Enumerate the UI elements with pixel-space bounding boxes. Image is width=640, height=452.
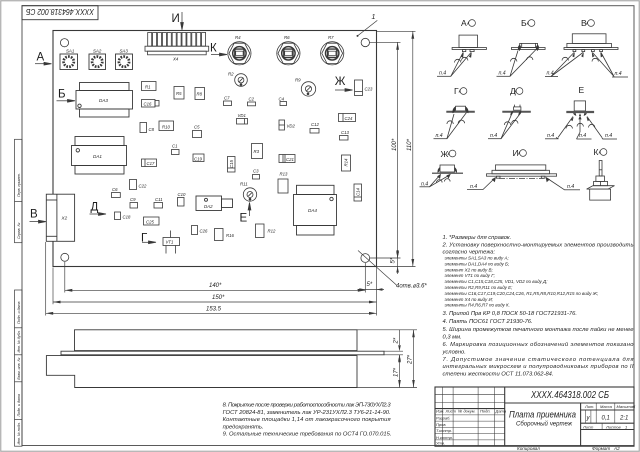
svg-text:C17: C17 [147, 161, 155, 166]
svg-text:Б: Б [58, 89, 66, 101]
svg-text:элементы R2,R9,R11 по виду Е;: элементы R2,R9,R11 по виду Е; [445, 285, 514, 290]
svg-text:А: А [461, 18, 467, 28]
svg-text:C2: C2 [249, 97, 255, 102]
svg-text:А2: А2 [613, 446, 620, 451]
svg-text:C8: C8 [149, 127, 155, 132]
svg-text:R14: R14 [344, 158, 349, 166]
svg-text:Утв.: Утв. [436, 441, 445, 446]
svg-text:Лит.: Лит. [584, 404, 594, 409]
svg-text:элементы DA1,DA4 по виду Б;: элементы DA1,DA4 по виду Б; [445, 261, 510, 266]
svg-text:Перв. примен.: Перв. примен. [17, 173, 21, 197]
svg-text:C25: C25 [146, 220, 154, 225]
svg-text:п.4: п.4 [547, 71, 554, 77]
svg-text:C7: C7 [224, 96, 230, 101]
svg-text:DA4: DA4 [308, 208, 317, 213]
svg-text:п.4: п.4 [470, 184, 477, 190]
svg-text:Е: Е [579, 85, 585, 95]
svg-text:Масштаб: Масштаб [617, 404, 636, 409]
svg-text:17*: 17* [394, 367, 400, 377]
svg-text:C15: C15 [229, 160, 234, 168]
svg-text:X2: X2 [61, 216, 68, 221]
svg-text:ГОСТ 20824-81, заменитель лак: ГОСТ 20824-81, заменитель лак УР-231УХЛ2… [223, 410, 391, 416]
svg-text:R4: R4 [235, 35, 241, 40]
svg-text:2:1: 2:1 [619, 416, 628, 422]
svg-text:Е: Е [240, 213, 248, 225]
svg-text:п.4: п.4 [579, 133, 586, 139]
svg-text:VT1: VT1 [166, 240, 174, 245]
svg-text:условно.: условно. [442, 350, 466, 356]
svg-text:Сборочный чертеж: Сборочный чертеж [516, 420, 572, 428]
svg-text:элемент VT1 по виду Г;: элемент VT1 по виду Г; [445, 273, 496, 278]
svg-text:Н.контр.: Н.контр. [436, 435, 453, 440]
svg-text:1. *Размеры для справок.: 1. *Размеры для справок. [443, 235, 512, 241]
svg-text:элементы С16,С17,С19,С20,С24,С: элементы С16,С17,С19,С20,С24,С26, R1,R5,… [445, 291, 599, 296]
svg-text:X4: X4 [172, 57, 179, 62]
svg-text:SA3: SA3 [120, 49, 129, 54]
svg-text:XXXX.464318.002 СБ: XXXX.464318.002 СБ [25, 7, 94, 16]
svg-text:элементы С1,С15,С18,С25, VD1,: элементы С1,С15,С18,С25, VD1, VD2 по вид… [445, 279, 549, 284]
svg-text:R8: R8 [197, 92, 203, 97]
svg-text:предохранять.: предохранять. [223, 424, 264, 430]
svg-text:C13: C13 [341, 130, 349, 135]
svg-text:2*: 2* [394, 337, 400, 344]
svg-text:интегральных микросхем и полуп: интегральных микросхем и полупроводников… [443, 364, 634, 370]
svg-text:C5: C5 [194, 125, 200, 130]
svg-text:К: К [594, 147, 599, 157]
svg-text:4. Паять ПОС61 ГОСТ 21930-76.: 4. Паять ПОС61 ГОСТ 21930-76. [443, 319, 533, 325]
svg-text:R16: R16 [226, 233, 234, 238]
svg-text:2. Установку поверхностно-монт: 2. Установку поверхностно-монтируемых эл… [442, 242, 634, 248]
svg-text:100*: 100* [392, 138, 398, 151]
svg-text:Т.контр.: Т.контр. [436, 428, 452, 433]
svg-text:Пров.: Пров. [436, 422, 447, 427]
svg-text:R7: R7 [328, 35, 334, 40]
svg-text:DA3: DA3 [99, 98, 108, 103]
svg-text:п.4: п.4 [547, 133, 554, 139]
svg-text:п.4: п.4 [605, 133, 612, 139]
svg-text:Копировал: Копировал [517, 446, 540, 451]
svg-text:153.5: 153.5 [206, 307, 222, 313]
svg-text:Подп.: Подп. [480, 409, 491, 414]
svg-text:8. Покрытие после проверки раб: 8. Покрытие после проверки работоспособн… [223, 403, 392, 409]
svg-text:SA1: SA1 [66, 49, 75, 54]
svg-text:C16: C16 [144, 102, 152, 107]
svg-text:150*: 150* [212, 295, 225, 301]
svg-text:Разраб.: Разраб. [436, 416, 450, 421]
svg-text:Дата: Дата [495, 409, 507, 414]
svg-text:элементы R4,R6,R7 по виду К.: элементы R4,R6,R7 по виду К. [445, 303, 510, 308]
svg-text:6. Маркировка позиционных обоз: 6. Маркировка позиционных обозначений эл… [443, 341, 635, 348]
svg-text:№ докум.: № докум. [458, 409, 476, 414]
svg-text:7. Допустимое значение статиче: 7. Допустимое значение статического поте… [443, 357, 634, 363]
svg-text:п.4: п.4 [615, 71, 622, 77]
svg-text:В: В [30, 209, 38, 221]
svg-text:4отв.⌀3.6*: 4отв.⌀3.6* [396, 284, 427, 290]
svg-text:Взам. инв. №: Взам. инв. № [17, 357, 21, 379]
svg-text:C21: C21 [286, 157, 294, 162]
svg-text:1: 1 [372, 14, 376, 21]
svg-text:C3: C3 [253, 169, 259, 174]
svg-text:0,1: 0,1 [602, 416, 610, 422]
svg-text:C14: C14 [356, 188, 361, 196]
svg-text:9. Остальные технические требо: 9. Остальные технические требования по О… [223, 432, 392, 438]
svg-text:C9: C9 [130, 197, 136, 202]
svg-text:Изм. Лист: Изм. Лист [436, 409, 457, 414]
svg-text:п.4: п.4 [421, 181, 428, 187]
svg-text:Контактные площадки 1,14 от ла: Контактные площадки 1,14 от лакокрасочно… [223, 417, 391, 423]
svg-text:п.4: п.4 [567, 184, 574, 190]
svg-text:C24: C24 [345, 116, 353, 121]
svg-text:R3: R3 [254, 149, 260, 154]
svg-text:Ж: Ж [441, 149, 449, 159]
svg-text:п.4: п.4 [499, 70, 506, 76]
svg-text:0,3 мм.: 0,3 мм. [443, 335, 462, 341]
svg-text:К: К [210, 43, 217, 55]
svg-text:XXXX.464318.002 СБ: XXXX.464318.002 СБ [530, 390, 609, 401]
svg-text:Д: Д [91, 202, 99, 214]
svg-text:1: 1 [625, 424, 627, 429]
svg-text:Лист: Лист [582, 424, 594, 429]
svg-text:элемент Х4 по виду И;: элемент Х4 по виду И; [445, 297, 494, 302]
svg-text:элемент Х2 по виду В;: элемент Х2 по виду В; [445, 267, 494, 272]
svg-text:C6: C6 [112, 187, 118, 192]
svg-text:Подп. и дата: Подп. и дата [17, 302, 21, 325]
svg-text:Справ. №: Справ. № [17, 223, 21, 239]
svg-text:R10: R10 [162, 125, 170, 130]
svg-text:Инв. № подл.: Инв. № подл. [17, 422, 21, 444]
svg-text:C10: C10 [178, 192, 186, 197]
svg-text:C23: C23 [365, 87, 373, 92]
svg-text:5. Ширина промежутков печатног: 5. Ширина промежутков печатного монтажа … [443, 326, 635, 333]
svg-text:R6: R6 [284, 35, 290, 40]
svg-text:SA2: SA2 [93, 49, 102, 54]
svg-text:C22: C22 [139, 184, 147, 189]
svg-text:R12: R12 [268, 229, 276, 234]
svg-text:R11: R11 [240, 182, 248, 187]
svg-text:Г: Г [454, 86, 459, 96]
svg-text:VD1: VD1 [238, 113, 247, 118]
svg-text:140*: 140* [209, 283, 222, 289]
svg-text:R2: R2 [228, 72, 234, 77]
svg-text:C4: C4 [279, 97, 285, 102]
svg-text:5*: 5* [367, 282, 373, 288]
svg-text:И: И [172, 13, 180, 25]
svg-text:согласно чертежа:: согласно чертежа: [443, 249, 496, 255]
svg-text:DA1: DA1 [93, 154, 102, 159]
svg-text:VD2: VD2 [287, 124, 296, 129]
svg-text:C11: C11 [155, 197, 163, 202]
svg-text:R1: R1 [145, 85, 151, 90]
svg-text:C19: C19 [194, 157, 202, 162]
svg-text:27*: 27* [408, 354, 414, 365]
svg-text:R13: R13 [280, 172, 288, 177]
svg-text:Масса: Масса [600, 404, 613, 409]
svg-text:Ж: Ж [335, 76, 346, 88]
svg-text:C18: C18 [123, 215, 131, 220]
svg-text:Подп. и дата: Подп. и дата [17, 394, 21, 417]
svg-text:Листов: Листов [605, 424, 621, 429]
svg-text:п.4: п.4 [439, 70, 446, 76]
svg-text:п.4: п.4 [490, 133, 497, 139]
svg-text:Г: Г [141, 233, 148, 245]
svg-text:DA2: DA2 [204, 204, 213, 209]
svg-text:5*: 5* [391, 257, 397, 263]
svg-text:п.4: п.4 [436, 133, 443, 139]
svg-text:элементы SA1,SA3 по виду А;: элементы SA1,SA3 по виду А; [445, 256, 510, 261]
svg-text:степени жесткости ОСТ 11.073.0: степени жесткости ОСТ 11.073.062-84. [443, 371, 554, 377]
svg-text:А: А [37, 52, 45, 64]
svg-text:Инв. № дубл.: Инв. № дубл. [17, 330, 21, 352]
svg-text:И: И [513, 148, 519, 158]
svg-text:Плата приемника: Плата приемника [509, 409, 576, 420]
svg-text:R9: R9 [295, 78, 301, 83]
svg-text:Б: Б [521, 18, 527, 28]
svg-text:C12: C12 [311, 122, 319, 127]
svg-text:Формат: Формат [592, 446, 610, 451]
svg-text:В: В [581, 18, 587, 28]
svg-text:C26: C26 [200, 229, 208, 234]
svg-text:R5: R5 [176, 91, 182, 96]
svg-text:110*: 110* [407, 138, 413, 151]
svg-text:Д: Д [510, 86, 516, 96]
svg-text:C1: C1 [172, 144, 178, 149]
svg-text:3. Припой Прв КР 0,8 ПОСК 50-1: 3. Припой Прв КР 0,8 ПОСК 50-18 ГОСТ2193… [443, 310, 577, 317]
